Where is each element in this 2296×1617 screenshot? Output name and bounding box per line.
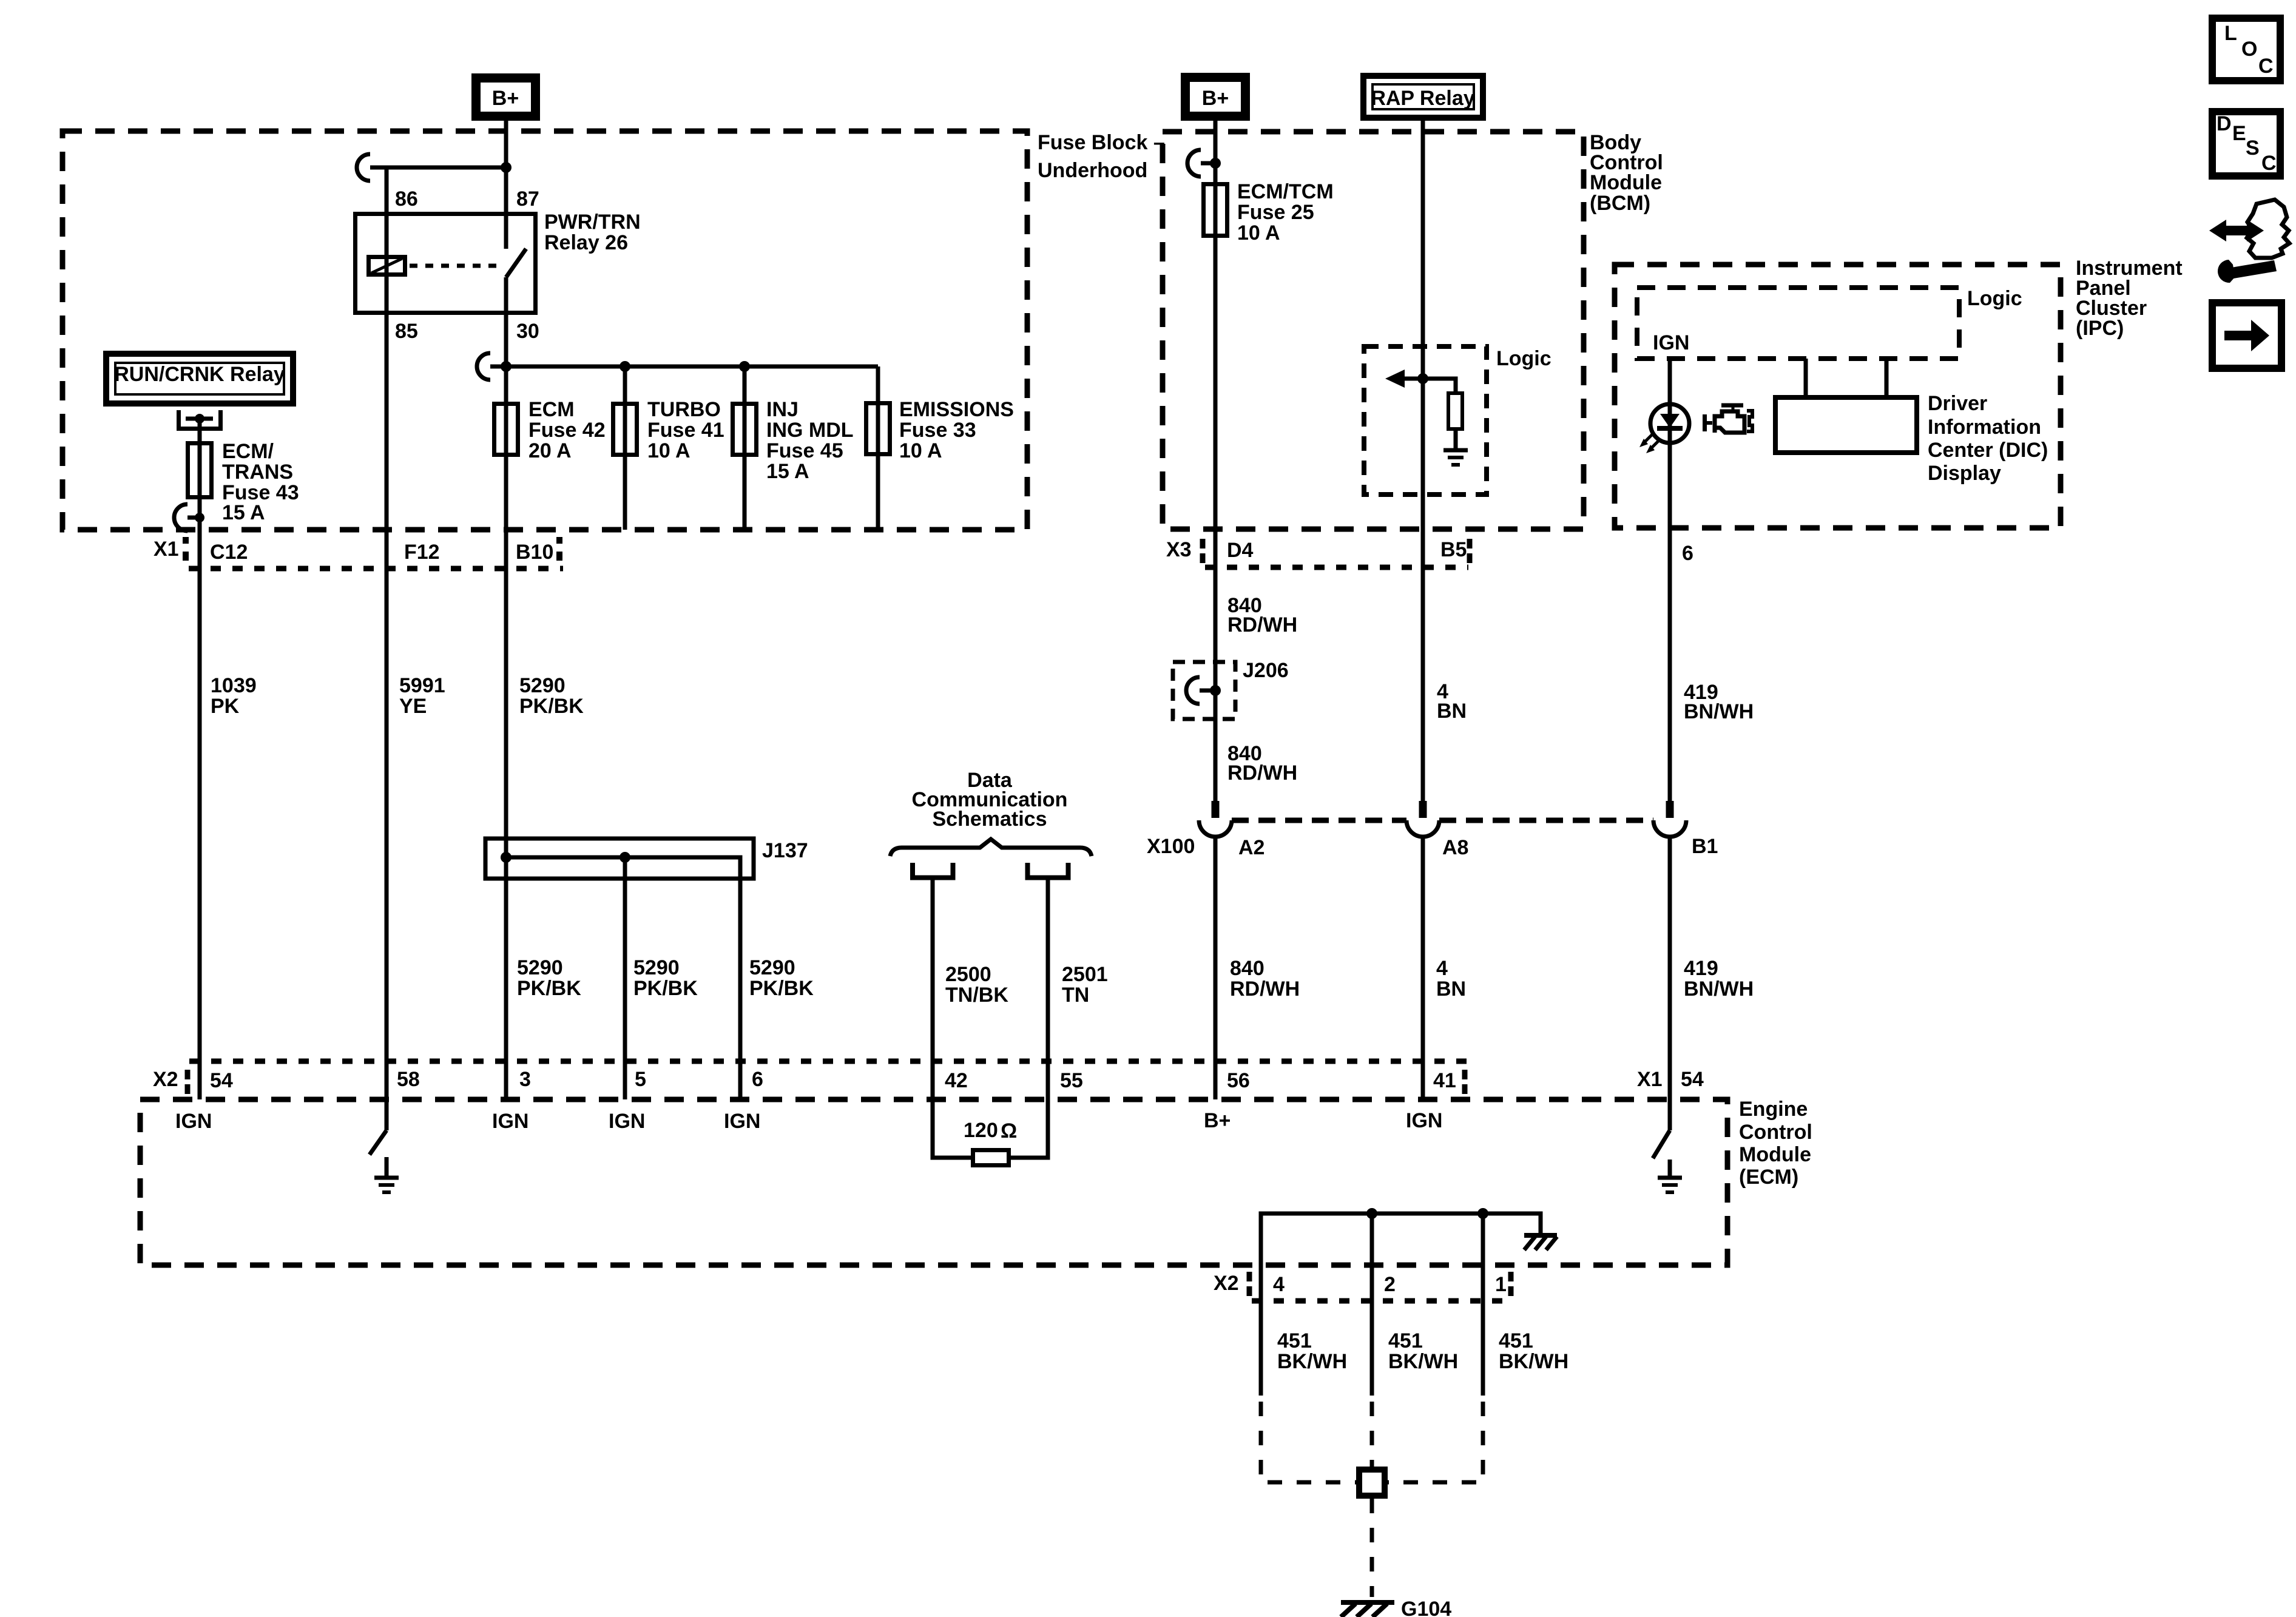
svg-text:ECM/TCM: ECM/TCM xyxy=(1237,180,1334,203)
wire 2501 TN to ECM pin 55 xyxy=(1009,880,1048,1158)
svg-text:451: 451 xyxy=(1499,1329,1533,1352)
svg-text:56: 56 xyxy=(1227,1069,1250,1092)
wire 1039 PK label xyxy=(211,674,257,718)
check engine icon xyxy=(1703,405,1752,433)
svg-text:Ω: Ω xyxy=(1001,1119,1017,1143)
svg-text:PK/BK: PK/BK xyxy=(749,977,814,1000)
fuse ECM/TCM Fuse 25 10 A xyxy=(1204,180,1334,245)
logic arrow into BCM xyxy=(1385,370,1423,388)
wire 419 BN/WH label bottom xyxy=(1684,957,1754,1001)
ground symbol BCM logic xyxy=(1443,450,1468,465)
wire resistor to ground xyxy=(1454,431,1458,449)
svg-text:X1: X1 xyxy=(154,538,179,561)
svg-text:BN: BN xyxy=(1437,700,1467,723)
DESC reference box xyxy=(2212,112,2280,176)
svg-text:4: 4 xyxy=(1436,957,1448,980)
svg-text:3: 3 xyxy=(519,1068,531,1091)
inline connector on fuse bus left end xyxy=(477,353,490,380)
svg-text:ING MDL: ING MDL xyxy=(766,419,854,442)
svg-text:5: 5 xyxy=(635,1068,646,1091)
svg-text:5290: 5290 xyxy=(519,674,566,697)
fuse TURBO Fuse 41 10 A xyxy=(613,398,724,462)
svg-text:IGN: IGN xyxy=(175,1110,212,1133)
wire 451 BK/WH label (pin 2) xyxy=(1388,1329,1458,1373)
svg-text:Fuse 42: Fuse 42 xyxy=(528,419,606,442)
wire 840 RD/WH label bottom xyxy=(1230,957,1300,1001)
wire relay pin 86 drop xyxy=(385,167,389,212)
svg-text:Center (DIC): Center (DIC) xyxy=(1928,439,2048,462)
BCM logic dashed box xyxy=(1364,346,1487,495)
fuse INJ ING MDL Fuse 45 15 A xyxy=(733,398,854,483)
wire 451 BK/WH label (pin 4) xyxy=(1277,1329,1347,1373)
svg-text:G104: G104 xyxy=(1401,1598,1451,1617)
svg-text:S: S xyxy=(2246,137,2260,160)
dashed wire pin 1 to ground splice xyxy=(1388,1402,1483,1482)
ECM connector row dotted line xyxy=(189,1059,1467,1064)
ground splice box xyxy=(1359,1470,1385,1496)
svg-text:RD/WH: RD/WH xyxy=(1230,977,1300,1001)
wire relay coil through to pin 85 and down to ECM pin 58 xyxy=(385,212,389,1130)
svg-text:54: 54 xyxy=(1681,1068,1704,1091)
svg-text:D4: D4 xyxy=(1227,539,1254,562)
wire 451 BK/WH label (pin 1) xyxy=(1499,1329,1568,1373)
wire logic tap to pull resistor xyxy=(1423,379,1456,391)
svg-text:(IPC): (IPC) xyxy=(2076,317,2124,340)
wire DIC lead left xyxy=(1804,359,1808,397)
svg-text:IGN: IGN xyxy=(1653,331,1689,354)
wire coil feed horizontal to pin 86 xyxy=(370,166,506,170)
splice J206 dashed box xyxy=(1173,662,1235,719)
svg-text:PWR/TRN: PWR/TRN xyxy=(544,211,641,234)
wire 2501 TN label xyxy=(1062,963,1108,1007)
svg-text:X2: X2 xyxy=(1214,1272,1239,1295)
svg-text:B1: B1 xyxy=(1692,835,1718,858)
body control module dashed box xyxy=(1163,132,1584,529)
connector X100 dashed line xyxy=(1232,818,1653,823)
label Instrument Panel Cluster (IPC) xyxy=(2076,257,2183,340)
wire through fuse 41 xyxy=(623,366,627,530)
svg-text:2: 2 xyxy=(1384,1273,1396,1296)
node junction bus to fuse 41 xyxy=(620,361,630,372)
ground G104 symbol xyxy=(1341,1602,1394,1617)
instrument panel cluster dashed box xyxy=(1615,265,2061,528)
label PWR/TRN Relay 26 xyxy=(544,211,641,254)
svg-text:TURBO: TURBO xyxy=(647,398,721,421)
connector row X1 dotted line xyxy=(189,566,563,572)
svg-text:BK/WH: BK/WH xyxy=(1277,1350,1347,1373)
node junction J137 middle branch xyxy=(620,852,630,863)
svg-text:X3: X3 xyxy=(1166,538,1192,561)
svg-text:451: 451 xyxy=(1277,1329,1312,1352)
wire 840 RD/WH label upper xyxy=(1227,594,1297,636)
svg-text:B+: B+ xyxy=(492,87,519,110)
svg-text:15 A: 15 A xyxy=(222,501,265,524)
svg-text:85: 85 xyxy=(395,320,418,343)
wire A8 to ECM pin 41 xyxy=(1421,836,1425,1099)
svg-text:C12: C12 xyxy=(210,541,248,564)
splice pack J137 box xyxy=(485,839,754,879)
node junction pin30 wire to fuse bus xyxy=(501,361,512,372)
svg-text:840: 840 xyxy=(1230,957,1264,980)
svg-text:54: 54 xyxy=(210,1069,233,1092)
svg-text:D: D xyxy=(2217,112,2232,135)
wire 5991 YE label xyxy=(399,674,445,718)
svg-text:5290: 5290 xyxy=(517,956,563,979)
svg-text:IGN: IGN xyxy=(609,1110,645,1133)
inline connector below fuse 43 xyxy=(174,504,204,531)
svg-text:PK: PK xyxy=(211,695,240,718)
svg-text:BN/WH: BN/WH xyxy=(1684,700,1754,723)
svg-text:Relay 26: Relay 26 xyxy=(544,231,628,254)
svg-text:10 A: 10 A xyxy=(647,439,690,462)
wire 4 BN label upper xyxy=(1437,680,1467,723)
wire through fuse 45 xyxy=(743,366,747,530)
BCM connector row dotted line xyxy=(1205,565,1468,570)
svg-text:RUN/CRNK Relay: RUN/CRNK Relay xyxy=(114,363,285,386)
ECM internal ground bus xyxy=(1261,1214,1541,1396)
RUN/CRNK Relay label box xyxy=(106,354,293,403)
svg-text:5991: 5991 xyxy=(399,674,445,697)
svg-text:C: C xyxy=(2258,55,2274,78)
wire 2500 TN/BK to ECM pin 42 xyxy=(933,880,973,1158)
svg-text:BK/WH: BK/WH xyxy=(1499,1350,1568,1373)
svg-text:TN/BK: TN/BK xyxy=(945,984,1008,1007)
wire 2500 TN/BK label xyxy=(945,963,1008,1007)
IPC logic dashed box xyxy=(1637,288,1959,359)
svg-text:BN/WH: BN/WH xyxy=(1684,977,1754,1001)
wire 419 BN/WH label upper xyxy=(1684,681,1754,723)
connector X100 terminal A2 xyxy=(1199,801,1232,837)
svg-text:Engine: Engine xyxy=(1739,1098,1808,1121)
RAP Relay source box xyxy=(1363,76,1483,118)
svg-text:X2: X2 xyxy=(153,1068,178,1091)
svg-text:120: 120 xyxy=(964,1119,998,1142)
fuse ECM Fuse 42 20 A xyxy=(495,398,606,462)
svg-text:Underhood: Underhood xyxy=(1038,159,1147,182)
ECM row end marks at X2 and pin 41 xyxy=(187,1070,1465,1094)
svg-text:2500: 2500 xyxy=(945,963,991,986)
svg-text:Fuse Block –: Fuse Block – xyxy=(1038,131,1165,154)
wire IGN through indicator LED down to pin 6 xyxy=(1668,359,1672,801)
next page arrow box xyxy=(2212,303,2281,368)
wire B1 to ECM pin 54 xyxy=(1668,836,1672,1130)
wire ground pin 1 xyxy=(1481,1214,1485,1396)
svg-text:IGN: IGN xyxy=(1406,1109,1442,1132)
inline connector on BCM B+ wire xyxy=(1187,150,1215,177)
relay switch blade pin 30 to 87 xyxy=(506,249,526,277)
svg-text:A8: A8 xyxy=(1442,836,1468,859)
driver information center display box xyxy=(1775,397,1917,453)
dashed wire pin 4 to ground splice xyxy=(1261,1402,1356,1482)
svg-text:Fuse 41: Fuse 41 xyxy=(647,419,724,442)
svg-text:(BCM): (BCM) xyxy=(1590,192,1650,215)
relay coil-contact dashed link xyxy=(410,264,501,268)
brace for data communication schematics xyxy=(890,839,1092,856)
svg-text:PK/BK: PK/BK xyxy=(633,977,698,1000)
wire J137 middle branch to ECM pin 5 xyxy=(623,857,627,1099)
svg-text:J137: J137 xyxy=(762,839,808,862)
svg-text:Logic: Logic xyxy=(1496,347,1551,370)
svg-text:5290: 5290 xyxy=(633,956,680,979)
svg-text:20 A: 20 A xyxy=(528,439,572,462)
svg-text:PK/BK: PK/BK xyxy=(519,695,584,718)
label Data Communication Schematics xyxy=(912,769,1068,831)
svg-text:1: 1 xyxy=(1495,1273,1507,1296)
fuse EMISSIONS Fuse 33 10 A xyxy=(866,398,1014,462)
svg-text:42: 42 xyxy=(945,1069,968,1092)
svg-text:O: O xyxy=(2241,38,2257,61)
svg-text:86: 86 xyxy=(395,187,418,211)
label Driver Information Center (DIC) Display xyxy=(1928,392,2048,485)
node junction ground bus wire 2 xyxy=(1366,1208,1377,1219)
wire 5290 PK/BK label (pin 6) xyxy=(749,956,814,1000)
connector to data link left xyxy=(913,863,953,878)
dashed wire splice to G104 xyxy=(1370,1499,1374,1597)
wire 840 RD/WH label lower xyxy=(1227,742,1297,785)
svg-text:6: 6 xyxy=(752,1068,763,1091)
svg-text:Fuse 45: Fuse 45 xyxy=(766,439,843,462)
svg-text:1039: 1039 xyxy=(211,674,257,697)
svg-text:L: L xyxy=(2224,22,2237,45)
svg-text:55: 55 xyxy=(1060,1069,1083,1092)
svg-text:58: 58 xyxy=(397,1068,420,1091)
connector row X1 end marks xyxy=(186,537,559,561)
wire A2 to ECM pin 56 xyxy=(1214,836,1218,1099)
svg-text:BK/WH: BK/WH xyxy=(1388,1350,1458,1373)
svg-text:B5: B5 xyxy=(1440,538,1467,561)
wire bus corner down through fuse 33 xyxy=(876,366,880,530)
svg-text:C: C xyxy=(2261,152,2277,175)
dashed wire pin 2 to ground splice xyxy=(1370,1402,1374,1467)
svg-text:Information: Information xyxy=(1928,416,2041,439)
X2 bottom connector row dotted line xyxy=(1252,1298,1510,1304)
LOC reference box xyxy=(2212,18,2280,81)
svg-text:Display: Display xyxy=(1928,462,2001,485)
engine control module dashed box xyxy=(140,1099,1727,1265)
svg-text:30: 30 xyxy=(516,320,539,343)
svg-text:INJ: INJ xyxy=(766,398,799,421)
wire pin 30 down through B10 and J137 to ECM pin 3 xyxy=(504,277,508,1099)
svg-text:B10: B10 xyxy=(516,541,553,564)
svg-text:2501: 2501 xyxy=(1062,963,1108,986)
svg-text:Logic: Logic xyxy=(1967,287,2022,310)
label Body Control Module (BCM) xyxy=(1590,131,1663,215)
node junction on B+ wire at coil feed xyxy=(501,162,512,173)
svg-text:ECM/: ECM/ xyxy=(222,440,274,463)
wire RAP Relay down to ECM pin 41 xyxy=(1421,121,1425,801)
wire DIC lead right xyxy=(1885,359,1889,397)
chassis ground symbol inside ECM xyxy=(1524,1235,1557,1250)
svg-text:Module: Module xyxy=(1739,1143,1811,1166)
splice J137 internal bus xyxy=(506,857,740,1099)
svg-text:RAP Relay: RAP Relay xyxy=(1371,87,1474,110)
svg-text:Fuse 25: Fuse 25 xyxy=(1237,201,1314,224)
label Fuse Block Underhood xyxy=(1038,131,1165,182)
svg-text:IGN: IGN xyxy=(724,1110,760,1133)
wire 5290 PK/BK label (pin 5) xyxy=(633,956,698,1000)
fuse ECM/TRANS Fuse 43 15 A xyxy=(188,440,299,524)
node junction B+ wire at inline connector xyxy=(1210,158,1221,169)
relay coil xyxy=(369,257,405,275)
svg-text:J206: J206 xyxy=(1243,659,1289,682)
svg-text:YE: YE xyxy=(399,695,427,718)
wire B+ through fuse 25 down to ECM pin 56 xyxy=(1214,121,1218,801)
svg-text:IGN: IGN xyxy=(492,1110,528,1133)
wire B+ down to relay pin 87 xyxy=(504,121,508,249)
connector to data link right xyxy=(1028,863,1069,878)
svg-text:X100: X100 xyxy=(1147,835,1195,858)
svg-text:451: 451 xyxy=(1388,1329,1423,1352)
node junction logic tap xyxy=(1417,373,1428,384)
svg-text:Driver: Driver xyxy=(1928,392,1987,415)
wire 5290 PK/BK label (pin 3) xyxy=(517,956,581,1000)
inline connector in J206 xyxy=(1186,677,1215,704)
svg-text:F12: F12 xyxy=(404,541,440,564)
svg-text:B+: B+ xyxy=(1204,1109,1231,1132)
node junction ground bus wire 1 xyxy=(1477,1208,1488,1219)
wire fuse feed bus xyxy=(490,365,878,369)
svg-text:Schematics: Schematics xyxy=(933,808,1047,831)
svg-text:EMISSIONS: EMISSIONS xyxy=(899,398,1014,421)
node junction J206 xyxy=(1210,685,1221,696)
indicator LED in IPC xyxy=(1639,404,1689,453)
connector X100 terminal B1 xyxy=(1653,801,1686,837)
svg-text:TRANS: TRANS xyxy=(222,461,293,484)
wire RUN/CRNK output down through fuse 43 to ECM pin 54 xyxy=(198,419,202,1099)
svg-text:X1: X1 xyxy=(1637,1068,1663,1091)
wire ground pin 2 xyxy=(1370,1214,1374,1396)
node junction J137 at B10 wire xyxy=(501,852,512,863)
svg-text:419: 419 xyxy=(1684,957,1718,980)
svg-text:TN: TN xyxy=(1062,984,1089,1007)
svg-text:RD/WH: RD/WH xyxy=(1227,761,1297,785)
relay output terminal bracket xyxy=(179,410,221,429)
power symbol B+ (BCM feed) xyxy=(1186,78,1246,116)
svg-text:A2: A2 xyxy=(1238,836,1264,859)
svg-text:10 A: 10 A xyxy=(1237,221,1280,245)
wire 5290 PK/BK label (B10) xyxy=(519,674,584,718)
node junction bus to fuse 45 xyxy=(739,361,750,372)
fuse block underhood dashed box xyxy=(62,131,1027,530)
svg-text:Control: Control xyxy=(1739,1121,1812,1144)
svg-text:B+: B+ xyxy=(1202,87,1229,110)
svg-text:5290: 5290 xyxy=(749,956,795,979)
inline connector on coil feed wire xyxy=(357,154,370,181)
svg-text:10 A: 10 A xyxy=(899,439,942,462)
svg-text:RD/WH: RD/WH xyxy=(1227,613,1297,636)
power symbol B+ (feed to PWR/TRN relay) xyxy=(476,78,536,116)
svg-text:(ECM): (ECM) xyxy=(1739,1166,1798,1189)
switch to ground at ECM pin 58 xyxy=(370,1130,399,1192)
terminating resistor 120 ohm xyxy=(964,1119,1017,1166)
svg-text:41: 41 xyxy=(1433,1069,1456,1092)
X2 bottom row end marks xyxy=(1249,1272,1511,1296)
relay PWR/TRN Relay 26 box xyxy=(356,214,536,313)
svg-text:87: 87 xyxy=(516,187,539,211)
svg-text:4: 4 xyxy=(1273,1273,1285,1296)
wire 4 BN label bottom xyxy=(1436,957,1466,1001)
svg-text:E: E xyxy=(2232,122,2246,145)
connector X100 terminal A8 xyxy=(1406,801,1439,837)
BCM row end marks xyxy=(1203,539,1470,563)
switch to ground at ECM pin 54 right xyxy=(1653,1130,1682,1192)
svg-text:15 A: 15 A xyxy=(766,460,809,483)
svg-text:Fuse 33: Fuse 33 xyxy=(899,419,976,442)
svg-text:Module: Module xyxy=(1590,171,1662,194)
adjust icon hand with arrow and wrench xyxy=(2209,200,2289,283)
resistor pull-down in BCM logic xyxy=(1448,393,1462,429)
svg-text:BN: BN xyxy=(1436,977,1466,1001)
label Engine Control Module (ECM) xyxy=(1739,1098,1812,1189)
svg-text:PK/BK: PK/BK xyxy=(517,977,581,1000)
svg-text:6: 6 xyxy=(1682,542,1693,565)
svg-text:ECM: ECM xyxy=(528,398,575,421)
